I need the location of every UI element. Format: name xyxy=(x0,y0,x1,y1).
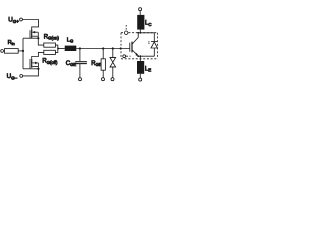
wire C_GE drop xyxy=(79,49,81,62)
svg-text:LG: LG xyxy=(67,38,74,44)
junction dot gate at module edge xyxy=(120,47,122,49)
svg-text:LC: LC xyxy=(145,21,151,27)
IGBT module dashed outline xyxy=(121,33,157,59)
inductor L_G xyxy=(65,46,77,51)
wire R_GE drop xyxy=(102,49,104,59)
suppressor diode Z1 bidirectional TVS xyxy=(110,49,116,78)
svg-text:UG+: UG+ xyxy=(8,17,19,24)
svg-text:CGE: CGE xyxy=(66,61,77,67)
wire R_in to rail xyxy=(18,50,23,52)
wire Q2 drain line up to R_G(off) row xyxy=(32,52,44,59)
capacitor C_GE xyxy=(75,62,87,64)
wire Q1 source line down to R_G(on) row xyxy=(38,32,44,45)
wire gate rail xyxy=(22,38,24,69)
svg-text:Rin: Rin xyxy=(8,40,15,46)
junction dot R_GE tap xyxy=(102,47,104,49)
wire collector terminal to L_C xyxy=(139,11,141,15)
wire join to L_G xyxy=(58,48,65,50)
svg-text:UG−: UG− xyxy=(7,73,18,80)
junction dot lower gate-source cross xyxy=(37,68,39,70)
node R_in input terminal xyxy=(1,50,4,53)
wire R_GE to terminal xyxy=(102,70,104,78)
inductor L_C xyxy=(137,15,144,30)
inductor L_E xyxy=(137,61,144,74)
junction dot emitter riser xyxy=(137,55,139,57)
junction dot L_E tap xyxy=(140,55,142,57)
transistor T1 IGBT xyxy=(130,33,138,56)
wire gate lead lower xyxy=(23,68,38,70)
resistor R_GE xyxy=(101,59,105,70)
node collector terminal xyxy=(139,8,142,11)
node U_G- terminal xyxy=(20,75,23,78)
resistor R_G(on) xyxy=(44,43,56,47)
junction dot upper gate-source cross xyxy=(37,37,39,39)
node auxiliary collector terminal xyxy=(125,25,128,34)
node suppressor terminal xyxy=(111,78,114,81)
wire emitter to L_E xyxy=(139,56,141,61)
resistor R_G(off) xyxy=(44,50,56,54)
node emitter terminal xyxy=(139,78,142,81)
wire main gate line xyxy=(76,48,130,50)
junction dot rail xyxy=(22,50,24,52)
node C_GE terminal xyxy=(79,78,82,81)
junction dot C_GE tap xyxy=(79,47,81,49)
node R_GE terminal xyxy=(102,78,105,81)
wire collector top xyxy=(138,32,154,34)
wire C_GE to terminal xyxy=(79,64,81,78)
junction dot L_C tap xyxy=(140,32,142,34)
transistor Q2 lower driver MOSFET xyxy=(30,59,38,69)
svg-text:LE: LE xyxy=(145,66,151,72)
svg-text:RG(off): RG(off) xyxy=(42,59,58,65)
wire gate lead upper xyxy=(23,37,38,39)
wire resistor outputs join xyxy=(55,45,57,52)
svg-text:RG(on): RG(on) xyxy=(44,34,60,40)
wire L_C to collector wire xyxy=(139,30,141,33)
node auxiliary emitter terminal xyxy=(123,55,131,58)
resistor R_in xyxy=(5,49,19,54)
junction dot resistor join xyxy=(57,48,59,50)
svg-text:RGE: RGE xyxy=(91,61,102,67)
wire Q2 source line to U_G- xyxy=(23,63,39,76)
node U_G+ terminal xyxy=(20,18,23,21)
junction dot suppressor tap xyxy=(112,47,114,49)
wire L_E to emitter terminal xyxy=(139,74,141,78)
wire marks near diode xyxy=(148,42,149,44)
junction dot collector riser xyxy=(137,32,139,34)
wire U_G+ to upper MOSFET drain xyxy=(22,20,38,30)
transistor Q1 upper driver MOSFET xyxy=(30,30,38,39)
diode D1 freewheeling xyxy=(151,33,157,56)
wire emitter bottom xyxy=(138,55,154,57)
